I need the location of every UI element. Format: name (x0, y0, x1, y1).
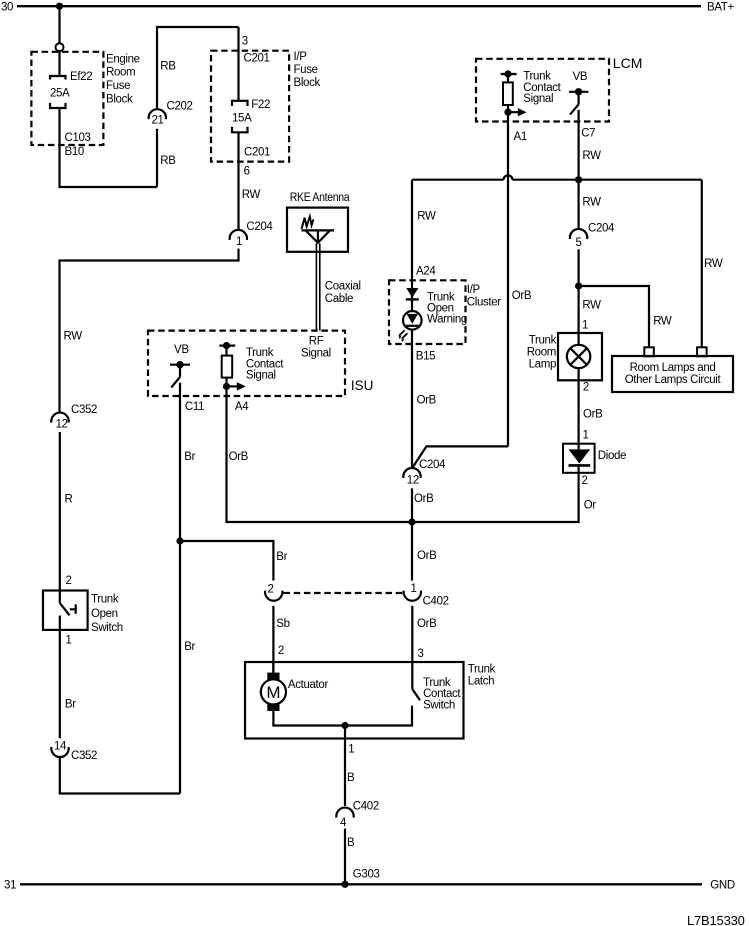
trunk open switch blade and contact (60, 603, 76, 615)
svg-text:RB: RB (160, 61, 176, 73)
trunk open warning diode (406, 288, 419, 299)
svg-text:Room Lamps and: Room Lamps and (630, 362, 716, 374)
svg-text:C352: C352 (71, 404, 97, 416)
svg-text:C352: C352 (71, 750, 97, 762)
svg-text:15A: 15A (232, 113, 252, 125)
wire Sb to actuator (272, 606, 274, 673)
svg-text:Br: Br (276, 551, 287, 563)
svg-text:OrB: OrB (417, 395, 437, 407)
LCM trunk contact signal output (501, 70, 562, 116)
svg-text:C7: C7 (581, 128, 595, 140)
trunk latch box (245, 662, 496, 739)
svg-text:Contact: Contact (523, 82, 561, 94)
svg-text:6: 6 (244, 166, 250, 178)
svg-text:Contact: Contact (246, 358, 284, 370)
connector C402 pin 4 (336, 800, 379, 829)
Br riser wire (179, 383, 181, 794)
wire trunk open switch pin 1 to C352 pin 14 (59, 616, 61, 739)
svg-text:RW: RW (242, 189, 261, 201)
wire OrB node to C402 pin 1 (411, 522, 413, 581)
wire bus 30 to eyelet (58, 6, 60, 43)
svg-text:Trunk: Trunk (246, 347, 274, 359)
svg-text:12: 12 (56, 419, 68, 431)
ISU box (148, 331, 373, 396)
trunk room lamp bulb (567, 345, 590, 368)
wire C204-12 to OrB node (411, 488, 413, 522)
svg-text:G303: G303 (353, 868, 380, 880)
junction Br node (176, 537, 183, 544)
connector C204 pin 5 (570, 223, 615, 249)
svg-text:C103: C103 (65, 132, 91, 144)
svg-text:C201: C201 (244, 53, 270, 65)
wire C204-1 down-left to left riser (60, 249, 239, 413)
svg-text:Lamp: Lamp (529, 358, 556, 370)
svg-text:Coaxial: Coaxial (325, 281, 361, 293)
svg-text:4: 4 (340, 817, 347, 829)
svg-text:31: 31 (4, 880, 16, 892)
svg-text:Trunk: Trunk (523, 71, 551, 83)
LCM box (476, 55, 642, 122)
wire lamp node to trunk room lamp (577, 286, 579, 344)
svg-text:OrB: OrB (417, 618, 437, 630)
svg-text:C11: C11 (185, 401, 204, 413)
svg-text:Other Lamps Circuit: Other Lamps Circuit (625, 374, 722, 386)
svg-text:25A: 25A (50, 88, 70, 100)
svg-text:L7B15330: L7B15330 (687, 913, 745, 926)
svg-text:Signal: Signal (246, 370, 276, 382)
diode D box (563, 444, 626, 473)
svg-text:14: 14 (54, 741, 67, 753)
wire RB riser upper segment (157, 27, 239, 109)
svg-text:RB: RB (160, 155, 176, 167)
LCM VB switch (569, 71, 588, 122)
wire C402-1 to trunk latch pin 3 (411, 606, 413, 689)
svg-text:Contact: Contact (423, 688, 461, 700)
svg-text:C202: C202 (167, 100, 193, 112)
svg-text:Or: Or (584, 499, 597, 511)
junction OrB node (408, 518, 415, 525)
svg-text:1: 1 (66, 634, 72, 646)
wire Br node to C402 pin 2 (180, 541, 273, 581)
junction lamp RW node (575, 282, 582, 289)
svg-text:I/P: I/P (294, 51, 308, 63)
svg-text:5: 5 (576, 237, 582, 249)
svg-text:OrB: OrB (583, 409, 603, 421)
trunk contact switch (345, 677, 461, 726)
wire fuse Ef22 down and to RB riser (60, 108, 158, 187)
svg-text:Sb: Sb (276, 618, 289, 630)
svg-text:M: M (266, 683, 280, 702)
svg-text:1: 1 (348, 743, 354, 755)
wire RB riser lower segment (156, 129, 158, 187)
svg-text:RW: RW (582, 300, 601, 312)
junction RW node (575, 176, 582, 183)
Engine Room Fuse Block box (31, 52, 139, 145)
connector C402 pin 2 (265, 583, 282, 600)
ground G303 node (341, 868, 379, 888)
wire lamp pin 2 to diode (577, 368, 579, 449)
svg-text:B: B (347, 837, 355, 849)
svg-text:3: 3 (418, 648, 424, 660)
svg-text:Trunk: Trunk (468, 663, 496, 675)
svg-text:OrB: OrB (229, 451, 249, 463)
svg-text:C204: C204 (246, 221, 273, 233)
C402 harness dashed link (284, 592, 404, 594)
wire latch pin 1 down to C402 pin 4 (344, 726, 346, 807)
svg-text:1: 1 (582, 319, 588, 331)
svg-text:2: 2 (66, 575, 72, 587)
svg-text:OrB: OrB (417, 550, 437, 562)
svg-text:Ef22: Ef22 (70, 71, 92, 83)
svg-text:Room: Room (527, 346, 556, 358)
svg-text:C402: C402 (423, 596, 449, 608)
svg-text:A24: A24 (416, 265, 436, 277)
ISU trunk contact signal input (219, 342, 284, 391)
svg-text:Block: Block (294, 77, 321, 89)
svg-text:VB: VB (573, 71, 588, 83)
svg-text:1: 1 (583, 430, 589, 442)
actuator motor M (261, 662, 329, 711)
svg-text:3: 3 (242, 36, 248, 48)
Room Lamps and Other Lamps Circuit box (612, 347, 733, 392)
wire C352-14 down and right to Br riser (60, 757, 180, 793)
svg-text:OrB: OrB (512, 290, 532, 302)
antenna symbol (302, 217, 335, 244)
junction ground node in latch (341, 722, 348, 729)
svg-text:2: 2 (278, 645, 284, 657)
coaxial cable (316, 243, 360, 330)
connector C352 pin 14 (51, 741, 97, 763)
svg-text:Room: Room (106, 67, 135, 79)
svg-text:Cluster: Cluster (467, 296, 501, 308)
svg-text:R: R (65, 493, 73, 505)
svg-text:Warning: Warning (427, 314, 467, 326)
svg-text:GND: GND (710, 880, 735, 892)
svg-text:Cable: Cable (325, 293, 353, 305)
ISU VB switch (170, 344, 190, 387)
wire A1 corner to C204 pin 12 (412, 446, 508, 468)
I/P Fuse Block box (211, 51, 320, 162)
svg-text:RW: RW (653, 316, 672, 328)
trunk open warning label (427, 292, 467, 326)
svg-text:Br: Br (184, 641, 195, 653)
wire to I/P fuse block pin 3 (237, 27, 239, 101)
connector C204 pin 1 (230, 221, 274, 248)
I/P Cluster box (389, 280, 501, 344)
svg-text:2: 2 (583, 381, 589, 393)
svg-text:C201: C201 (244, 147, 270, 159)
bus 31 GND rail (4, 880, 735, 892)
svg-text:ISU: ISU (351, 378, 374, 393)
wire A4 OrB down to OrB node (227, 386, 413, 522)
diode symbol (569, 449, 591, 465)
svg-text:Switch: Switch (91, 622, 123, 634)
wire lamp node to room lamps circuit left pin (579, 286, 649, 348)
wire right RW drop to room lamps circuit (701, 180, 703, 348)
bus 30 BAT+ rail (1, 2, 734, 14)
svg-text:RW: RW (64, 330, 83, 342)
svg-text:C204: C204 (419, 459, 446, 471)
svg-text:Trunk: Trunk (91, 593, 119, 605)
wire C402-4 to G303 (344, 829, 346, 885)
svg-text:VB: VB (174, 344, 189, 356)
svg-text:Latch: Latch (468, 675, 494, 687)
RW distribution line (412, 175, 702, 179)
svg-text:B: B (347, 772, 355, 784)
svg-text:Trunk: Trunk (423, 677, 451, 689)
svg-text:BAT+: BAT+ (707, 2, 734, 14)
svg-text:Br: Br (65, 698, 76, 710)
wire diode pin 2 to OrB node (412, 465, 579, 522)
junction on bus 30 (56, 3, 63, 10)
trunk open warning LED lamp (398, 311, 421, 342)
svg-text:12: 12 (407, 474, 419, 486)
connector C202 pin 21 (149, 100, 193, 126)
svg-text:F22: F22 (251, 99, 270, 111)
fuse Ef22 25A (50, 71, 92, 158)
svg-text:RW: RW (704, 258, 723, 270)
wire A1 down across hop to corner (507, 112, 509, 446)
wire F22 to C204 pin 1 (237, 132, 239, 230)
wire eyelet to fuse Ef22 (58, 51, 60, 75)
svg-text:RW: RW (582, 150, 601, 162)
svg-text:1: 1 (236, 236, 242, 248)
svg-text:OrB: OrB (414, 493, 434, 505)
svg-text:LCM: LCM (613, 55, 643, 71)
svg-text:30: 30 (1, 2, 13, 14)
svg-text:1: 1 (411, 583, 417, 595)
svg-text:Block: Block (106, 93, 133, 105)
connector C402 pin 1 (404, 583, 449, 608)
wire motor to ground run (273, 711, 345, 726)
svg-text:Diode: Diode (598, 450, 626, 462)
svg-text:Switch: Switch (423, 699, 455, 711)
svg-text:21: 21 (152, 114, 164, 126)
svg-text:RW: RW (582, 196, 601, 208)
trunk room lamp box (527, 333, 602, 380)
wire R to trunk open switch (59, 432, 61, 603)
svg-text:RW: RW (417, 210, 436, 222)
svg-text:B10: B10 (65, 146, 84, 158)
svg-text:Signal: Signal (523, 93, 553, 105)
wire RW node to C204 pin 5 (577, 180, 579, 229)
RKE Antenna box (287, 192, 350, 252)
svg-text:A4: A4 (235, 401, 249, 413)
svg-text:Signal: Signal (301, 348, 331, 360)
svg-text:2: 2 (268, 583, 274, 595)
svg-text:A1: A1 (514, 131, 527, 143)
svg-text:RKE Antenna: RKE Antenna (290, 192, 350, 204)
svg-text:Br: Br (184, 451, 195, 463)
wire RW distribution left end down to I/P cluster (411, 180, 413, 469)
fuse F22 15A (232, 99, 270, 132)
svg-text:2: 2 (582, 475, 588, 487)
wire C7 to RW junction (577, 122, 579, 180)
trunk open switch box (43, 591, 123, 635)
connector C352 pin 12 (51, 404, 97, 431)
svg-text:I/P: I/P (467, 284, 481, 296)
svg-text:Fuse: Fuse (106, 80, 130, 92)
svg-text:Engine: Engine (106, 53, 140, 65)
eyelet terminal (56, 43, 64, 51)
svg-text:Open: Open (91, 608, 118, 620)
svg-text:C204: C204 (588, 223, 615, 235)
connector C204 pin 12 (403, 459, 446, 487)
svg-text:Actuator: Actuator (288, 679, 329, 691)
svg-text:Fuse: Fuse (294, 64, 318, 76)
svg-text:B15: B15 (416, 350, 435, 362)
svg-text:C402: C402 (353, 800, 379, 812)
svg-text:Trunk: Trunk (529, 334, 557, 346)
svg-text:RF: RF (309, 335, 324, 347)
wire C204-5 to lamp junction (577, 249, 579, 286)
